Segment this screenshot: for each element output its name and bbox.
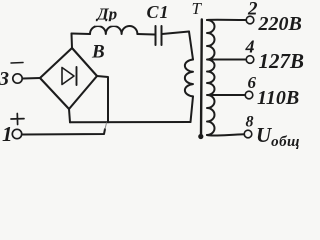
transformer core xyxy=(200,20,203,137)
svg-text:В: В xyxy=(91,42,105,63)
transformer primary winding xyxy=(185,60,193,97)
svg-text:127В: 127В xyxy=(259,49,305,73)
terminal 4 circle xyxy=(246,56,254,64)
diode inside bridge xyxy=(62,68,74,85)
svg-text:Uобщ: Uобщ xyxy=(256,123,300,150)
capacitor C1 plates xyxy=(155,26,157,45)
terminal 2 circle xyxy=(246,16,254,24)
svg-text:2: 2 xyxy=(247,0,258,20)
minus macron over 3 xyxy=(11,62,23,65)
terminal 3 circle xyxy=(13,74,22,83)
diode cathode bar xyxy=(76,67,78,85)
wire C1 to transformer xyxy=(162,32,189,35)
wire down to primary xyxy=(189,32,193,60)
bridge rectifier B diamond xyxy=(40,48,97,109)
svg-text:4: 4 xyxy=(245,37,255,57)
wire bridge right vertex xyxy=(97,76,108,122)
core end dot xyxy=(198,134,203,139)
svg-text:8: 8 xyxy=(246,114,254,131)
wire tap 2 xyxy=(207,19,246,21)
wire primary bottom down xyxy=(191,96,194,122)
transformer secondary winding xyxy=(207,20,215,135)
wire terminal1 right xyxy=(23,129,106,135)
wire top rail left xyxy=(72,33,91,36)
svg-text:Др: Др xyxy=(95,5,117,24)
inductor Dr xyxy=(90,26,137,34)
plus sign xyxy=(11,114,24,125)
svg-text:1: 1 xyxy=(2,122,13,146)
wire rail to C1 xyxy=(137,33,154,36)
svg-text:6: 6 xyxy=(248,73,257,92)
wire bridge bottom stub xyxy=(69,109,70,122)
wire terminal3 to bridge xyxy=(23,77,40,80)
terminal 8 circle xyxy=(244,130,252,138)
svg-text:3: 3 xyxy=(0,68,9,90)
wire bridge top vertex up xyxy=(71,34,74,49)
wire tap 6 xyxy=(208,94,245,96)
terminal 1 circle xyxy=(12,129,21,138)
svg-text:Т: Т xyxy=(192,0,203,18)
svg-text:110В: 110В xyxy=(257,87,299,109)
bottom rail wire xyxy=(70,121,191,123)
terminal 6 circle xyxy=(245,91,253,99)
svg-text:С1: С1 xyxy=(147,2,170,22)
svg-text:220В: 220В xyxy=(258,13,302,35)
faint junction link xyxy=(105,123,107,129)
wire tap 4 xyxy=(208,59,246,61)
wire tap 8 xyxy=(207,134,244,135)
